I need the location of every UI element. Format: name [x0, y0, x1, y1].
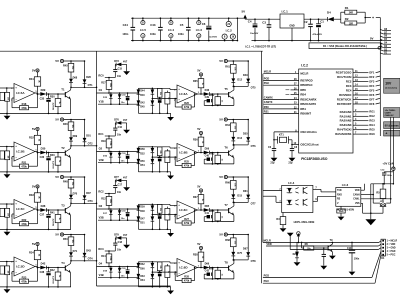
- clamp small diodes O3: [103, 208, 130, 221]
- svg-text:I.C.2: I.C.2: [301, 63, 308, 67]
- capacitor C38 I.C.6A: [158, 97, 162, 114]
- svg-text:I.C.2: I.C.2: [226, 28, 232, 32]
- svg-text:T1: T1: [61, 87, 65, 91]
- supply 5V stage R48: [55, 175, 63, 179]
- ground D76: [123, 123, 130, 134]
- wire rail tie: [236, 18, 238, 40]
- supply 5V arrow prog: [297, 232, 300, 244]
- svg-text:RG4: RG4: [369, 123, 375, 127]
- svg-text:D4: D4: [327, 10, 331, 14]
- svg-text:3 = GND: 3 = GND: [387, 248, 396, 250]
- svg-text:MCLR: MCLR: [300, 72, 308, 76]
- svg-text:C40: C40: [205, 155, 210, 158]
- resistor R65: [210, 210, 222, 221]
- clamp bridge D58 D52 D50 D54: [137, 146, 155, 173]
- clamp small diodes O1: [103, 92, 130, 105]
- svg-text:DF2: DF2: [369, 75, 374, 79]
- node RC2: [98, 189, 115, 194]
- svg-text:DF7: DF7: [369, 97, 374, 101]
- pin 9 OSC1/CLKin: [274, 129, 317, 134]
- svg-text:PGD: PGD: [264, 78, 270, 81]
- connector K1 body: [379, 18, 381, 137]
- svg-text:D29: D29: [41, 88, 46, 92]
- resistor R37: [193, 195, 204, 210]
- svg-text:D55: D55: [243, 133, 248, 136]
- ground I.C.6C: [167, 229, 174, 237]
- resistor R5: [376, 184, 385, 203]
- transistor T7: [224, 202, 234, 221]
- svg-text:DF4: DF4: [369, 84, 374, 88]
- svg-text:OT6: OT6: [251, 145, 256, 148]
- svg-text:100k: 100k: [339, 211, 345, 213]
- svg-text:I.C.3: I.C.3: [342, 183, 349, 187]
- zener D76 4V7: [114, 119, 128, 125]
- node V1B: [98, 99, 138, 104]
- wire D42 to base: [46, 267, 65, 269]
- svg-text:470k: 470k: [184, 165, 190, 168]
- wire VSS IC3 ground: [361, 202, 363, 204]
- resistor R66: [225, 177, 236, 194]
- resistor R22 470k: [20, 218, 29, 226]
- resistor R50 I.C.6C: [157, 204, 162, 213]
- svg-text:0V: 0V: [370, 36, 374, 40]
- svg-text:D54: D54: [140, 164, 145, 167]
- svg-text:RG6: RG6: [369, 132, 375, 136]
- svg-text:1M: 1M: [6, 156, 8, 159]
- svg-text:C6: C6: [202, 22, 206, 26]
- supply 5V R32: [32, 127, 39, 135]
- svg-text:D45: D45: [140, 106, 145, 109]
- wire minus input I.C.6B: [152, 156, 177, 158]
- wire output I.C.5C: [35, 208, 37, 210]
- svg-text:4V7: 4V7: [123, 234, 128, 237]
- svg-text:T3: T3: [61, 203, 65, 207]
- svg-text:CANH: CANH: [353, 193, 360, 196]
- svg-text:I.C.5D: I.C.5D: [16, 265, 25, 269]
- supply 5V R35: [197, 68, 202, 78]
- capacitor C1 470u/35V: [313, 18, 325, 41]
- svg-text:O1: O1: [99, 88, 103, 92]
- svg-text:R40: R40: [50, 154, 55, 157]
- wire plus input I.C.6B: [152, 146, 170, 148]
- svg-text:RS: RS: [337, 199, 341, 201]
- transistor T4: [61, 261, 71, 287]
- svg-text:D42: D42: [41, 261, 46, 265]
- capacitor C15 10n: [113, 64, 122, 77]
- svg-text:I.C.6A: I.C.6A: [179, 92, 188, 96]
- wire collector to bus: [71, 86, 97, 88]
- svg-text:T2: T2: [61, 146, 65, 150]
- resistor R36: [193, 137, 204, 152]
- pin 10 OSC2/CLKout: [292, 142, 319, 147]
- svg-text:I.C.6C: I.C.6C: [179, 208, 188, 212]
- svg-text:D71: D71: [73, 250, 78, 253]
- svg-text:KT1: KT1: [279, 134, 284, 137]
- capacitor C6 22p: [268, 146, 277, 165]
- resistor R4 100k: [337, 206, 345, 220]
- svg-text:C17: C17: [118, 183, 123, 186]
- node V2B: [98, 158, 138, 163]
- ground I.C.5C: [0, 229, 30, 236]
- wire D46 to base T5: [210, 93, 229, 95]
- clamp small diodes O4: [103, 266, 130, 279]
- svg-text:RC1: RC1: [98, 132, 104, 136]
- wire plus input I.C.6D: [152, 261, 170, 263]
- capacitor C38 I.C.6D: [158, 271, 162, 288]
- svg-text:D64: D64: [140, 279, 145, 282]
- wire feedback I.C.5A: [29, 107, 38, 109]
- svg-text:RC4: RC4: [346, 89, 352, 93]
- svg-text:62k: 62k: [159, 266, 161, 269]
- resistor R68: [225, 235, 236, 252]
- svg-text:5V: 5V: [197, 242, 200, 246]
- wire collector node: [233, 85, 248, 87]
- svg-text:+: +: [385, 132, 387, 136]
- svg-text:4u7/6V3: 4u7/6V3: [52, 161, 55, 169]
- capacitor C8 22p: [288, 146, 297, 165]
- wire stage rail: [227, 176, 248, 178]
- capacitor C41: [204, 210, 212, 221]
- svg-text:D44: D44: [140, 89, 145, 92]
- node RC1: [98, 132, 115, 137]
- svg-text:V2B: V2B: [99, 158, 104, 162]
- power pins I.C.2: [222, 17, 235, 41]
- svg-text:D59: D59: [140, 206, 145, 208]
- svg-text:I.C.3: I.C.3: [196, 28, 202, 32]
- svg-text:OT7: OT7: [251, 202, 256, 205]
- grey box plus: [384, 130, 400, 136]
- svg-text:R35: R35: [193, 80, 198, 83]
- pin 4 RA2/AN2: [340, 118, 376, 123]
- pin 15 RC4: [346, 88, 380, 93]
- svg-text:T4: T4: [61, 261, 65, 265]
- svg-text:RA2/AN2: RA2/AN2: [340, 119, 352, 123]
- diode D01: [83, 119, 92, 146]
- svg-text:RC0/T1OSO: RC0/T1OSO: [336, 71, 352, 75]
- node O2: [97, 147, 139, 152]
- supply 5V R37: [197, 184, 202, 194]
- op-amp I.C.6A: [174, 85, 200, 103]
- supply 5V stage R46: [55, 118, 63, 122]
- svg-text:10n: 10n: [117, 248, 122, 251]
- svg-text:I.C.6D: I.C.6D: [179, 266, 188, 270]
- capacitor C17 10n: [113, 180, 122, 193]
- svg-text:PGC: PGC: [264, 280, 270, 283]
- svg-text:OT5: OT5: [251, 86, 256, 89]
- ground I.C.6B: [167, 172, 174, 180]
- capacitor C36: [40, 153, 55, 172]
- svg-text:R66: R66: [225, 181, 230, 184]
- svg-text:RS0: RS0: [264, 106, 269, 109]
- power pins I.C.4: [168, 17, 174, 41]
- svg-text:R50: R50: [63, 238, 68, 241]
- svg-text:100k: 100k: [109, 83, 111, 87]
- resistor R3: [276, 213, 286, 233]
- pin 28 RB7/PGD: [263, 78, 312, 83]
- svg-text:D68: D68: [73, 76, 78, 79]
- svg-text:5 = PGC: 5 = PGC: [387, 255, 396, 257]
- resistor R53: [165, 149, 170, 173]
- svg-text:T7: T7: [224, 203, 228, 207]
- svg-text:R37: R37: [193, 196, 198, 199]
- wire stage rail: [64, 60, 85, 62]
- resistor input R62: [0, 208, 10, 229]
- svg-text:100n: 100n: [178, 32, 184, 36]
- svg-text:1M: 1M: [6, 213, 8, 216]
- svg-text:D61: D61: [243, 190, 248, 193]
- diode D67: [243, 234, 250, 260]
- svg-text:I.C.5A: I.C.5A: [16, 91, 25, 95]
- svg-text:VDD: VDD: [266, 243, 271, 246]
- pin 11 RC0/T1OSO: [336, 70, 380, 75]
- svg-text:O3: O3: [99, 204, 103, 208]
- wire top 5V rail of decoupling row: [131, 17, 243, 19]
- capacitor C37: [40, 210, 55, 229]
- wire jumper down: [382, 207, 384, 214]
- capacitor C16 10n: [113, 123, 122, 136]
- transistor T5: [224, 86, 234, 105]
- note box D1: [309, 43, 381, 49]
- diode D29: [40, 88, 46, 96]
- svg-text:C2: C2: [304, 20, 308, 24]
- wire collector node: [233, 259, 248, 261]
- supply 5V stage R61: [219, 59, 227, 63]
- wire emitter rail T1: [30, 112, 71, 114]
- svg-text:D40: D40: [140, 94, 145, 97]
- svg-text:5V: 5V: [219, 233, 223, 237]
- svg-text:R64: R64: [225, 124, 230, 127]
- svg-text:MCLR: MCLR: [264, 239, 271, 242]
- wire emitter rail T3: [30, 228, 71, 230]
- svg-text:100k: 100k: [109, 141, 111, 145]
- resistor R50 I.C.6D: [157, 262, 162, 271]
- svg-text:RG1: RG1: [369, 110, 375, 114]
- resistor R48: [63, 177, 74, 188]
- resistor R14 100k: [101, 251, 112, 267]
- svg-text:D67: D67: [243, 248, 248, 251]
- svg-text:1M: 1M: [6, 97, 8, 100]
- svg-text:D43: D43: [86, 250, 91, 253]
- diode D56: [204, 148, 210, 155]
- wire stage rail: [64, 234, 85, 236]
- ground I.C.6A: [167, 113, 174, 121]
- capacitor C38 I.C.6B: [158, 156, 162, 173]
- svg-text:TXD: TXD: [337, 190, 342, 192]
- svg-text:RG5: RG5: [369, 128, 375, 132]
- svg-text:R31: R31: [29, 77, 34, 81]
- svg-text:+: +: [372, 16, 374, 20]
- wire inputs I.C.5B: [0, 146, 14, 148]
- svg-text:62k: 62k: [159, 92, 161, 95]
- svg-text:4V7: 4V7: [123, 176, 128, 179]
- svg-text:R48: R48: [63, 180, 68, 183]
- wire PGC net: [263, 282, 375, 284]
- wire collector node: [233, 201, 248, 203]
- svg-text:OT8: OT8: [251, 260, 256, 263]
- wire emitter rail T7: [204, 220, 234, 222]
- svg-text:D42: D42: [140, 101, 145, 104]
- svg-text:470k: 470k: [21, 165, 27, 168]
- svg-text:RC1/T1OSI: RC1/T1OSI: [337, 75, 351, 79]
- wire PGD net: [263, 276, 372, 278]
- wire minus input I.C.6C: [152, 214, 177, 216]
- pin 5 RA3/AN3: [340, 123, 376, 128]
- svg-text:C3: C3: [262, 20, 266, 24]
- svg-text:4u7/6V3: 4u7/6V3: [52, 276, 55, 284]
- svg-text:100k: 100k: [109, 199, 111, 203]
- wire D56 to base T6: [210, 152, 229, 154]
- wire D65 to base T7: [210, 209, 229, 211]
- wire crystal right: [291, 140, 293, 149]
- wire CANH CANL to connector: [390, 117, 392, 183]
- wire collector to bus: [71, 260, 97, 262]
- wire D66 to base T8: [210, 267, 229, 269]
- resistor R50 I.C.6B: [157, 147, 162, 156]
- svg-text:D30: D30: [41, 146, 46, 150]
- wire clamp bottom rail I.C.6C: [152, 228, 170, 230]
- svg-text:10V: 10V: [385, 81, 392, 85]
- diode D43: [83, 234, 92, 261]
- svg-text:DF8: DF8: [369, 102, 374, 106]
- svg-text:RC7/RX/DT: RC7/RX/DT: [337, 102, 352, 106]
- svg-text:C18: C18: [118, 241, 123, 244]
- svg-text:DF1: DF1: [369, 71, 374, 75]
- capacitor C35: [40, 94, 55, 113]
- microcontroller I.C.2 box: [299, 63, 353, 160]
- wire clamp bottom rail I.C.6A: [152, 112, 170, 114]
- svg-text:RA3/AN3: RA3/AN3: [340, 123, 352, 127]
- diode D42: [40, 261, 46, 269]
- wire output I.C.5B: [35, 151, 37, 153]
- pin 2 RA0/AN0: [340, 109, 376, 114]
- svg-text:R33: R33: [29, 193, 34, 197]
- svg-text:R46: R46: [63, 123, 68, 126]
- wire R6 to T9: [314, 247, 328, 249]
- svg-text:100n: 100n: [354, 257, 360, 260]
- wire collector to bus: [71, 145, 97, 147]
- svg-text:R61: R61: [225, 65, 230, 68]
- wire stage rail: [227, 234, 248, 236]
- svg-text:5V: 5V: [219, 175, 223, 179]
- svg-text:I.C.5: I.C.5: [140, 28, 146, 32]
- svg-text:R42: R42: [50, 269, 55, 272]
- wire 0V rail: [131, 40, 237, 42]
- svg-text:4V7: 4V7: [123, 119, 128, 122]
- ground D73: [123, 64, 130, 75]
- regulator I.C.1: [280, 10, 304, 42]
- capacitor C38: [40, 268, 55, 287]
- wire emitter rail T2: [30, 171, 71, 173]
- svg-text:RB2/CANTX: RB2/CANTX: [300, 102, 316, 106]
- svg-text:R34: R34: [29, 251, 34, 255]
- node O4: [97, 262, 139, 267]
- crystal KT1: [274, 134, 292, 144]
- svg-text:470k: 470k: [184, 222, 190, 225]
- svg-text:C37: C37: [40, 213, 45, 216]
- resistor R50: [63, 235, 74, 246]
- pin 25 RB4: [286, 92, 307, 97]
- svg-text:RA0/AN0: RA0/AN0: [340, 110, 352, 114]
- diode D71: [69, 246, 78, 261]
- svg-text:D52: D52: [140, 154, 145, 156]
- wire D29 to base: [46, 93, 65, 95]
- svg-text:C42: C42: [205, 270, 210, 273]
- transistor T6: [224, 145, 234, 164]
- op-amp I.C.5C: [11, 200, 37, 219]
- transistor T8: [224, 260, 234, 279]
- diode D55: [243, 119, 250, 145]
- transistor T3: [61, 203, 71, 229]
- pin 7 wire I.C.4 right top: [313, 188, 321, 190]
- svg-text:C5: C5: [180, 23, 184, 27]
- svg-text:10n: 10n: [117, 191, 122, 194]
- plus terminal: [372, 16, 380, 20]
- diode D30: [40, 146, 46, 154]
- wire plus input I.C.6A: [152, 87, 170, 89]
- svg-text:I.C.6B: I.C.6B: [179, 151, 188, 155]
- capacitor C6 4u7: [202, 17, 218, 41]
- resistor R23 470k: [20, 275, 29, 283]
- diode D2: [293, 242, 301, 266]
- svg-text:R1: R1: [345, 6, 349, 10]
- supply 5V stage R66: [219, 175, 227, 179]
- svg-text:10u/16V: 10u/16V: [250, 33, 259, 35]
- svg-text:T8: T8: [224, 261, 228, 265]
- svg-text:C16: C16: [118, 126, 123, 129]
- clamp small diodes O2: [103, 151, 130, 164]
- wire feedback I.C.5C: [29, 223, 38, 225]
- svg-text:D1 = SS3 (Diodes DO-214AB/T.M.: D1 = SS3 (Diodes DO-214AB/T.M.B.): [323, 44, 367, 48]
- wire output I.C.6C: [197, 209, 203, 211]
- capacitor C10 100n: [347, 242, 360, 276]
- svg-text:RB4: RB4: [300, 93, 306, 97]
- termination network box wires: [372, 184, 374, 203]
- resistor R63: [210, 153, 222, 164]
- svg-text:5V: 5V: [197, 184, 200, 188]
- svg-text:D50: D50: [140, 161, 145, 163]
- pin 24 RB3/CANRX: [263, 97, 316, 102]
- pin 27 RB6/PGC: [263, 82, 312, 87]
- svg-text:MCLR: MCLR: [264, 71, 271, 74]
- svg-text:100k: 100k: [109, 256, 111, 260]
- svg-text:RB5: RB5: [300, 88, 306, 92]
- svg-text:RC3: RC3: [98, 247, 104, 251]
- svg-text:5V: 5V: [55, 118, 59, 122]
- svg-text:5V: 5V: [32, 127, 36, 131]
- svg-text:470k: 470k: [184, 106, 190, 109]
- resistor R61: [225, 61, 236, 78]
- resistor R51: [165, 91, 170, 115]
- svg-text:R41: R41: [50, 211, 55, 214]
- svg-text:RC5/SDO: RC5/SDO: [339, 93, 352, 97]
- svg-text:5V: 5V: [32, 242, 36, 246]
- wire clamp bottom rail I.C.6B: [152, 171, 170, 173]
- wire collector node: [233, 144, 248, 146]
- wire VDD IC3: [361, 189, 365, 191]
- svg-text:D28: D28: [86, 76, 91, 79]
- node O3: [97, 204, 139, 209]
- svg-text:(in brackets): (in brackets): [385, 86, 397, 89]
- wire output I.C.6B: [197, 152, 203, 154]
- diode D07: [83, 176, 92, 203]
- diode D68: [69, 72, 78, 87]
- resistor R42: [50, 268, 61, 287]
- diode D13: [231, 137, 242, 145]
- capacitor C3 100n: [262, 18, 271, 41]
- svg-text:62k: 62k: [159, 208, 161, 211]
- svg-text:4u7/6V3: 4u7/6V3: [52, 103, 55, 111]
- svg-text:RC2: RC2: [98, 189, 104, 193]
